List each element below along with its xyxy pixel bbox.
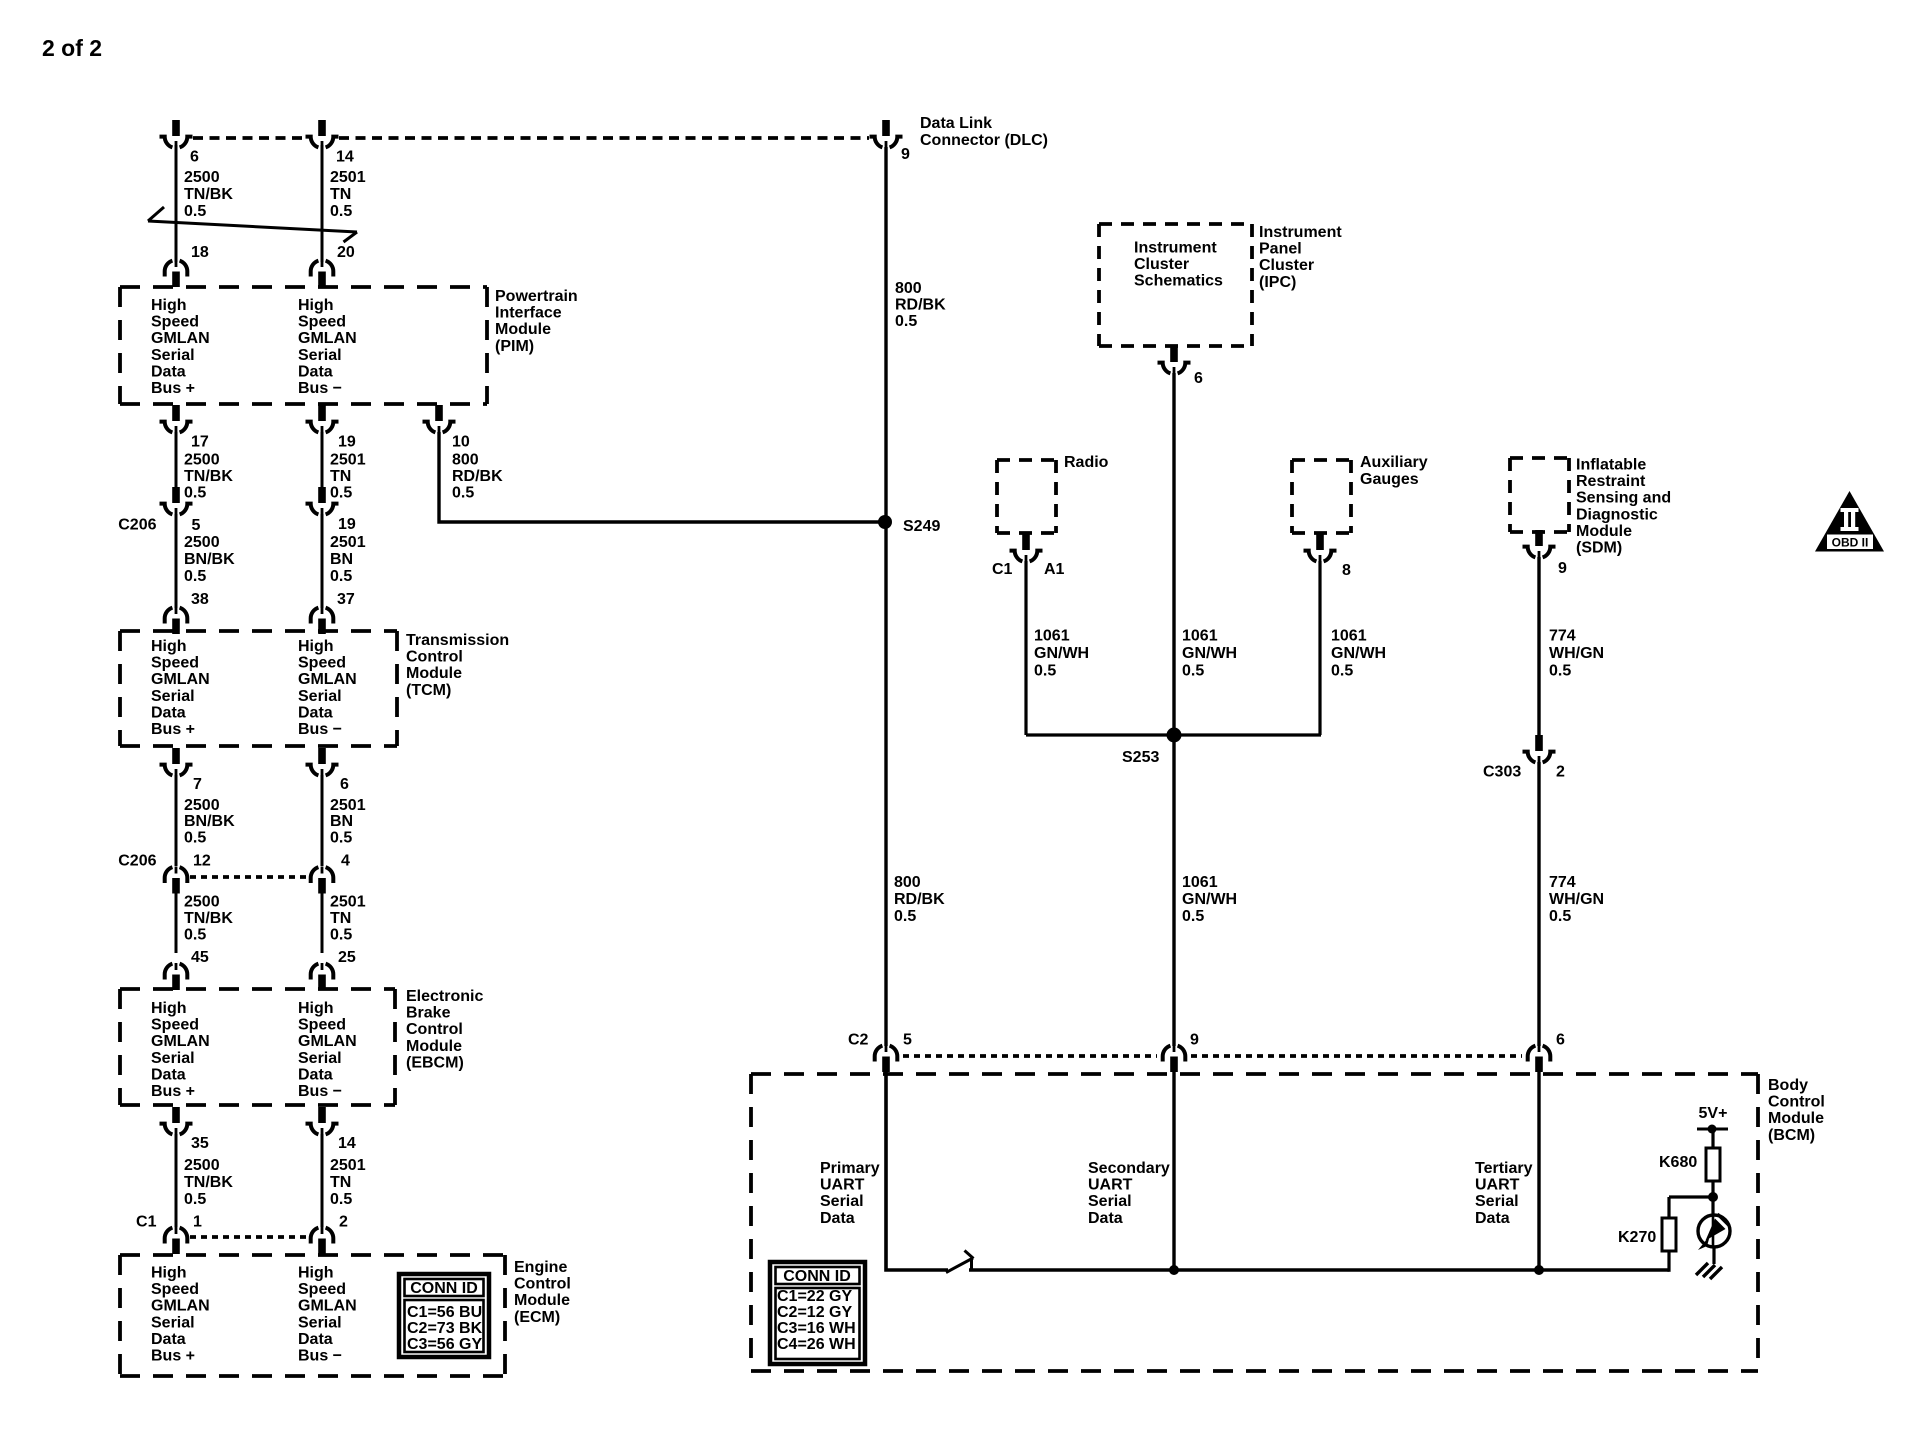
svg-text:1061: 1061 [1331,628,1367,645]
svg-text:Inflatable: Inflatable [1576,457,1646,474]
svg-text:Serial: Serial [151,1050,195,1067]
svg-text:Module: Module [1768,1110,1824,1127]
svg-text:Data: Data [820,1210,855,1227]
svg-text:Speed: Speed [298,1281,346,1298]
svg-text:Serial: Serial [151,1314,195,1331]
svg-text:2: 2 [339,1214,348,1231]
svg-text:Control: Control [1768,1094,1825,1111]
svg-text:BN/BK: BN/BK [184,551,235,568]
svg-text:6: 6 [340,776,349,793]
svg-text:0.5: 0.5 [330,484,352,501]
svg-text:Bus +: Bus + [151,721,195,738]
svg-text:25: 25 [338,949,356,966]
svg-text:Connector (DLC): Connector (DLC) [920,132,1048,149]
svg-text:RD/BK: RD/BK [452,468,503,485]
svg-text:Module: Module [1576,523,1632,540]
svg-text:Control: Control [406,1021,463,1038]
svg-text:2501: 2501 [330,894,366,911]
svg-text:0.5: 0.5 [1034,663,1056,680]
svg-text:WH/GN: WH/GN [1549,645,1604,662]
svg-text:5V+: 5V+ [1699,1105,1728,1122]
svg-text:Bus −: Bus − [298,1083,342,1100]
svg-text:High: High [151,1265,187,1282]
svg-text:5: 5 [192,517,201,534]
svg-text:2: 2 [1556,764,1565,781]
svg-text:Control: Control [514,1276,571,1293]
svg-text:Serial: Serial [298,1050,342,1067]
svg-text:C206: C206 [118,853,156,870]
svg-text:1: 1 [193,1214,202,1231]
svg-text:Serial: Serial [820,1193,864,1210]
svg-text:0.5: 0.5 [452,484,474,501]
svg-text:RD/BK: RD/BK [894,891,945,908]
svg-text:19: 19 [338,516,356,533]
svg-text:0.5: 0.5 [184,926,206,943]
svg-text:UART: UART [1088,1177,1133,1194]
svg-text:0.5: 0.5 [1331,663,1353,680]
svg-text:GMLAN: GMLAN [298,671,357,688]
svg-text:GMLAN: GMLAN [298,330,357,347]
svg-text:High: High [298,1000,334,1017]
svg-text:774: 774 [1549,628,1576,645]
svg-text:14: 14 [338,1135,356,1152]
svg-text:1061: 1061 [1182,874,1218,891]
svg-text:2500: 2500 [184,1157,220,1174]
svg-text:C4=26 WH: C4=26 WH [777,1336,856,1353]
svg-text:Cluster: Cluster [1259,257,1314,274]
svg-text:0.5: 0.5 [184,203,206,220]
svg-text:Module: Module [406,1038,462,1055]
svg-text:6: 6 [1556,1032,1565,1049]
svg-text:TN/BK: TN/BK [184,186,233,203]
svg-text:Data: Data [151,1066,186,1083]
svg-text:Serial: Serial [1475,1193,1519,1210]
svg-text:Brake: Brake [406,1005,451,1022]
svg-text:Data: Data [298,704,333,721]
svg-text:Serial: Serial [151,688,195,705]
svg-text:TN/BK: TN/BK [184,468,233,485]
svg-text:Speed: Speed [151,655,199,672]
svg-text:Panel: Panel [1259,241,1302,258]
svg-text:6: 6 [1194,370,1203,387]
svg-text:7: 7 [193,776,202,793]
svg-text:GN/WH: GN/WH [1182,891,1237,908]
svg-text:38: 38 [191,591,209,608]
svg-text:High: High [151,1000,187,1017]
svg-text:0.5: 0.5 [330,926,352,943]
svg-text:Data: Data [151,704,186,721]
svg-text:Electronic: Electronic [406,988,483,1005]
svg-text:5: 5 [903,1032,912,1049]
svg-text:Restraint: Restraint [1576,473,1646,490]
svg-text:S249: S249 [903,518,940,535]
svg-text:9: 9 [1558,560,1567,577]
svg-text:UART: UART [820,1177,865,1194]
svg-text:Data: Data [298,1066,333,1083]
svg-text:GN/WH: GN/WH [1034,645,1089,662]
svg-text:2500: 2500 [184,534,220,551]
svg-text:Bus −: Bus − [298,721,342,738]
svg-text:C206: C206 [118,517,156,534]
svg-text:WH/GN: WH/GN [1549,891,1604,908]
svg-text:Diagnostic: Diagnostic [1576,506,1658,523]
svg-text:TN: TN [330,468,351,485]
svg-text:800: 800 [894,874,921,891]
svg-text:Data: Data [1475,1210,1510,1227]
svg-text:Module: Module [406,665,462,682]
svg-text:(IPC): (IPC) [1259,274,1296,291]
svg-text:Gauges: Gauges [1360,471,1419,488]
svg-text:10: 10 [452,434,470,451]
svg-text:0.5: 0.5 [330,203,352,220]
svg-text:35: 35 [191,1135,209,1152]
svg-text:2501: 2501 [330,534,366,551]
svg-text:1061: 1061 [1182,628,1218,645]
svg-text:20: 20 [337,244,355,261]
svg-text:Primary: Primary [820,1160,880,1177]
svg-text:37: 37 [337,591,355,608]
svg-text:17: 17 [191,434,209,451]
svg-text:14: 14 [336,149,354,166]
svg-text:12: 12 [193,853,211,870]
svg-text:45: 45 [191,949,209,966]
svg-text:2501: 2501 [330,797,366,814]
svg-text:9: 9 [901,146,910,163]
svg-text:C2=73 BK: C2=73 BK [407,1320,483,1337]
svg-text:GMLAN: GMLAN [298,1298,357,1315]
svg-text:C3=16 WH: C3=16 WH [777,1320,856,1337]
svg-text:Data Link: Data Link [920,115,992,132]
svg-text:High: High [151,638,187,655]
svg-text:High: High [298,297,334,314]
svg-text:A1: A1 [1044,561,1065,578]
svg-text:TN: TN [330,1174,351,1191]
svg-text:6: 6 [190,149,199,166]
svg-text:Sensing and: Sensing and [1576,490,1671,507]
svg-text:C2=12 GY: C2=12 GY [777,1304,852,1321]
svg-text:Data: Data [151,363,186,380]
svg-text:Control: Control [406,649,463,666]
svg-text:C2: C2 [848,1032,869,1049]
svg-text:Data: Data [151,1331,186,1348]
svg-text:2500: 2500 [184,452,220,469]
svg-text:0.5: 0.5 [894,908,916,925]
svg-text:Powertrain: Powertrain [495,288,578,305]
svg-text:Transmission: Transmission [406,632,509,649]
svg-text:TN: TN [330,910,351,927]
svg-text:Speed: Speed [151,1017,199,1034]
svg-text:0.5: 0.5 [1549,908,1571,925]
svg-text:Data: Data [298,363,333,380]
svg-text:0.5: 0.5 [1182,908,1204,925]
svg-text:GMLAN: GMLAN [151,1298,210,1315]
svg-text:2500: 2500 [184,797,220,814]
svg-text:OBD II: OBD II [1832,536,1869,550]
svg-text:0.5: 0.5 [1549,663,1571,680]
svg-text:S253: S253 [1122,749,1159,766]
svg-text:Schematics: Schematics [1134,273,1223,290]
svg-text:0.5: 0.5 [184,568,206,585]
svg-text:Module: Module [495,321,551,338]
svg-text:Instrument: Instrument [1134,240,1217,257]
svg-text:GMLAN: GMLAN [151,330,210,347]
svg-text:TN/BK: TN/BK [184,910,233,927]
svg-text:Speed: Speed [151,314,199,331]
svg-text:Cluster: Cluster [1134,256,1189,273]
svg-text:K270: K270 [1618,1229,1656,1246]
svg-text:High: High [151,297,187,314]
svg-text:BN/BK: BN/BK [184,813,235,830]
svg-text:GMLAN: GMLAN [151,671,210,688]
svg-text:8: 8 [1342,562,1351,579]
svg-text:774: 774 [1549,874,1576,891]
svg-text:800: 800 [895,280,922,297]
svg-text:GN/WH: GN/WH [1331,645,1386,662]
svg-text:BN: BN [330,551,353,568]
svg-text:(BCM): (BCM) [1768,1127,1815,1144]
svg-text:C1: C1 [992,561,1013,578]
svg-text:Serial: Serial [1088,1193,1132,1210]
svg-text:Serial: Serial [298,1314,342,1331]
svg-text:0.5: 0.5 [184,829,206,846]
svg-text:0.5: 0.5 [184,484,206,501]
svg-text:0.5: 0.5 [330,829,352,846]
svg-text:GMLAN: GMLAN [151,1033,210,1050]
svg-text:Serial: Serial [298,688,342,705]
svg-text:Bus +: Bus + [151,1348,195,1365]
svg-text:Secondary: Secondary [1088,1160,1170,1177]
svg-text:Serial: Serial [298,347,342,364]
svg-text:C1: C1 [136,1214,157,1231]
svg-text:Tertiary: Tertiary [1475,1160,1533,1177]
svg-text:19: 19 [338,434,356,451]
svg-text:18: 18 [191,244,209,261]
svg-text:800: 800 [452,452,479,469]
svg-text:Speed: Speed [298,1017,346,1034]
svg-text:9: 9 [1190,1032,1199,1049]
svg-text:2500: 2500 [184,894,220,911]
svg-text:(SDM): (SDM) [1576,540,1622,557]
svg-text:0.5: 0.5 [895,313,917,330]
svg-text:GMLAN: GMLAN [298,1033,357,1050]
svg-text:2501: 2501 [330,169,366,186]
svg-text:Data: Data [1088,1210,1123,1227]
svg-text:0.5: 0.5 [184,1191,206,1208]
svg-text:K680: K680 [1659,1154,1697,1171]
svg-text:Data: Data [298,1331,333,1348]
svg-text:Body: Body [1768,1077,1808,1094]
svg-text:C303: C303 [1483,764,1521,781]
svg-text:RD/BK: RD/BK [895,297,946,314]
svg-text:Serial: Serial [151,347,195,364]
svg-text:C1=56 BU: C1=56 BU [407,1304,482,1321]
svg-text:TN: TN [330,186,351,203]
svg-text:Speed: Speed [298,314,346,331]
svg-text:(EBCM): (EBCM) [406,1054,464,1071]
svg-text:Speed: Speed [298,655,346,672]
svg-text:Bus +: Bus + [151,1083,195,1100]
svg-text:Radio: Radio [1064,454,1109,471]
svg-text:C3=56 GY: C3=56 GY [407,1336,482,1353]
svg-text:High: High [298,1265,334,1282]
svg-text:1061: 1061 [1034,628,1070,645]
svg-text:CONN ID: CONN ID [783,1268,851,1285]
svg-text:GN/WH: GN/WH [1182,645,1237,662]
svg-text:Module: Module [514,1292,570,1309]
svg-text:CONN ID: CONN ID [410,1280,478,1297]
svg-text:Instrument: Instrument [1259,224,1342,241]
svg-text:Auxiliary: Auxiliary [1360,454,1428,471]
svg-text:BN: BN [330,813,353,830]
svg-text:Speed: Speed [151,1281,199,1298]
svg-text:(ECM): (ECM) [514,1309,560,1326]
svg-text:0.5: 0.5 [1182,663,1204,680]
svg-text:4: 4 [341,853,350,870]
svg-text:2 of 2: 2 of 2 [42,35,102,61]
svg-text:C1=22 GY: C1=22 GY [777,1288,852,1305]
svg-text:(PIM): (PIM) [495,338,534,355]
svg-text:2501: 2501 [330,1157,366,1174]
svg-text:0.5: 0.5 [330,1191,352,1208]
svg-text:2500: 2500 [184,169,220,186]
svg-text:Bus −: Bus − [298,1348,342,1365]
svg-text:High: High [298,638,334,655]
svg-text:Interface: Interface [495,305,562,322]
svg-text:Bus −: Bus − [298,380,342,397]
svg-text:(TCM): (TCM) [406,682,451,699]
svg-text:TN/BK: TN/BK [184,1174,233,1191]
svg-text:UART: UART [1475,1177,1520,1194]
svg-text:0.5: 0.5 [330,568,352,585]
svg-text:Engine: Engine [514,1259,567,1276]
svg-text:Bus +: Bus + [151,380,195,397]
svg-text:2501: 2501 [330,452,366,469]
